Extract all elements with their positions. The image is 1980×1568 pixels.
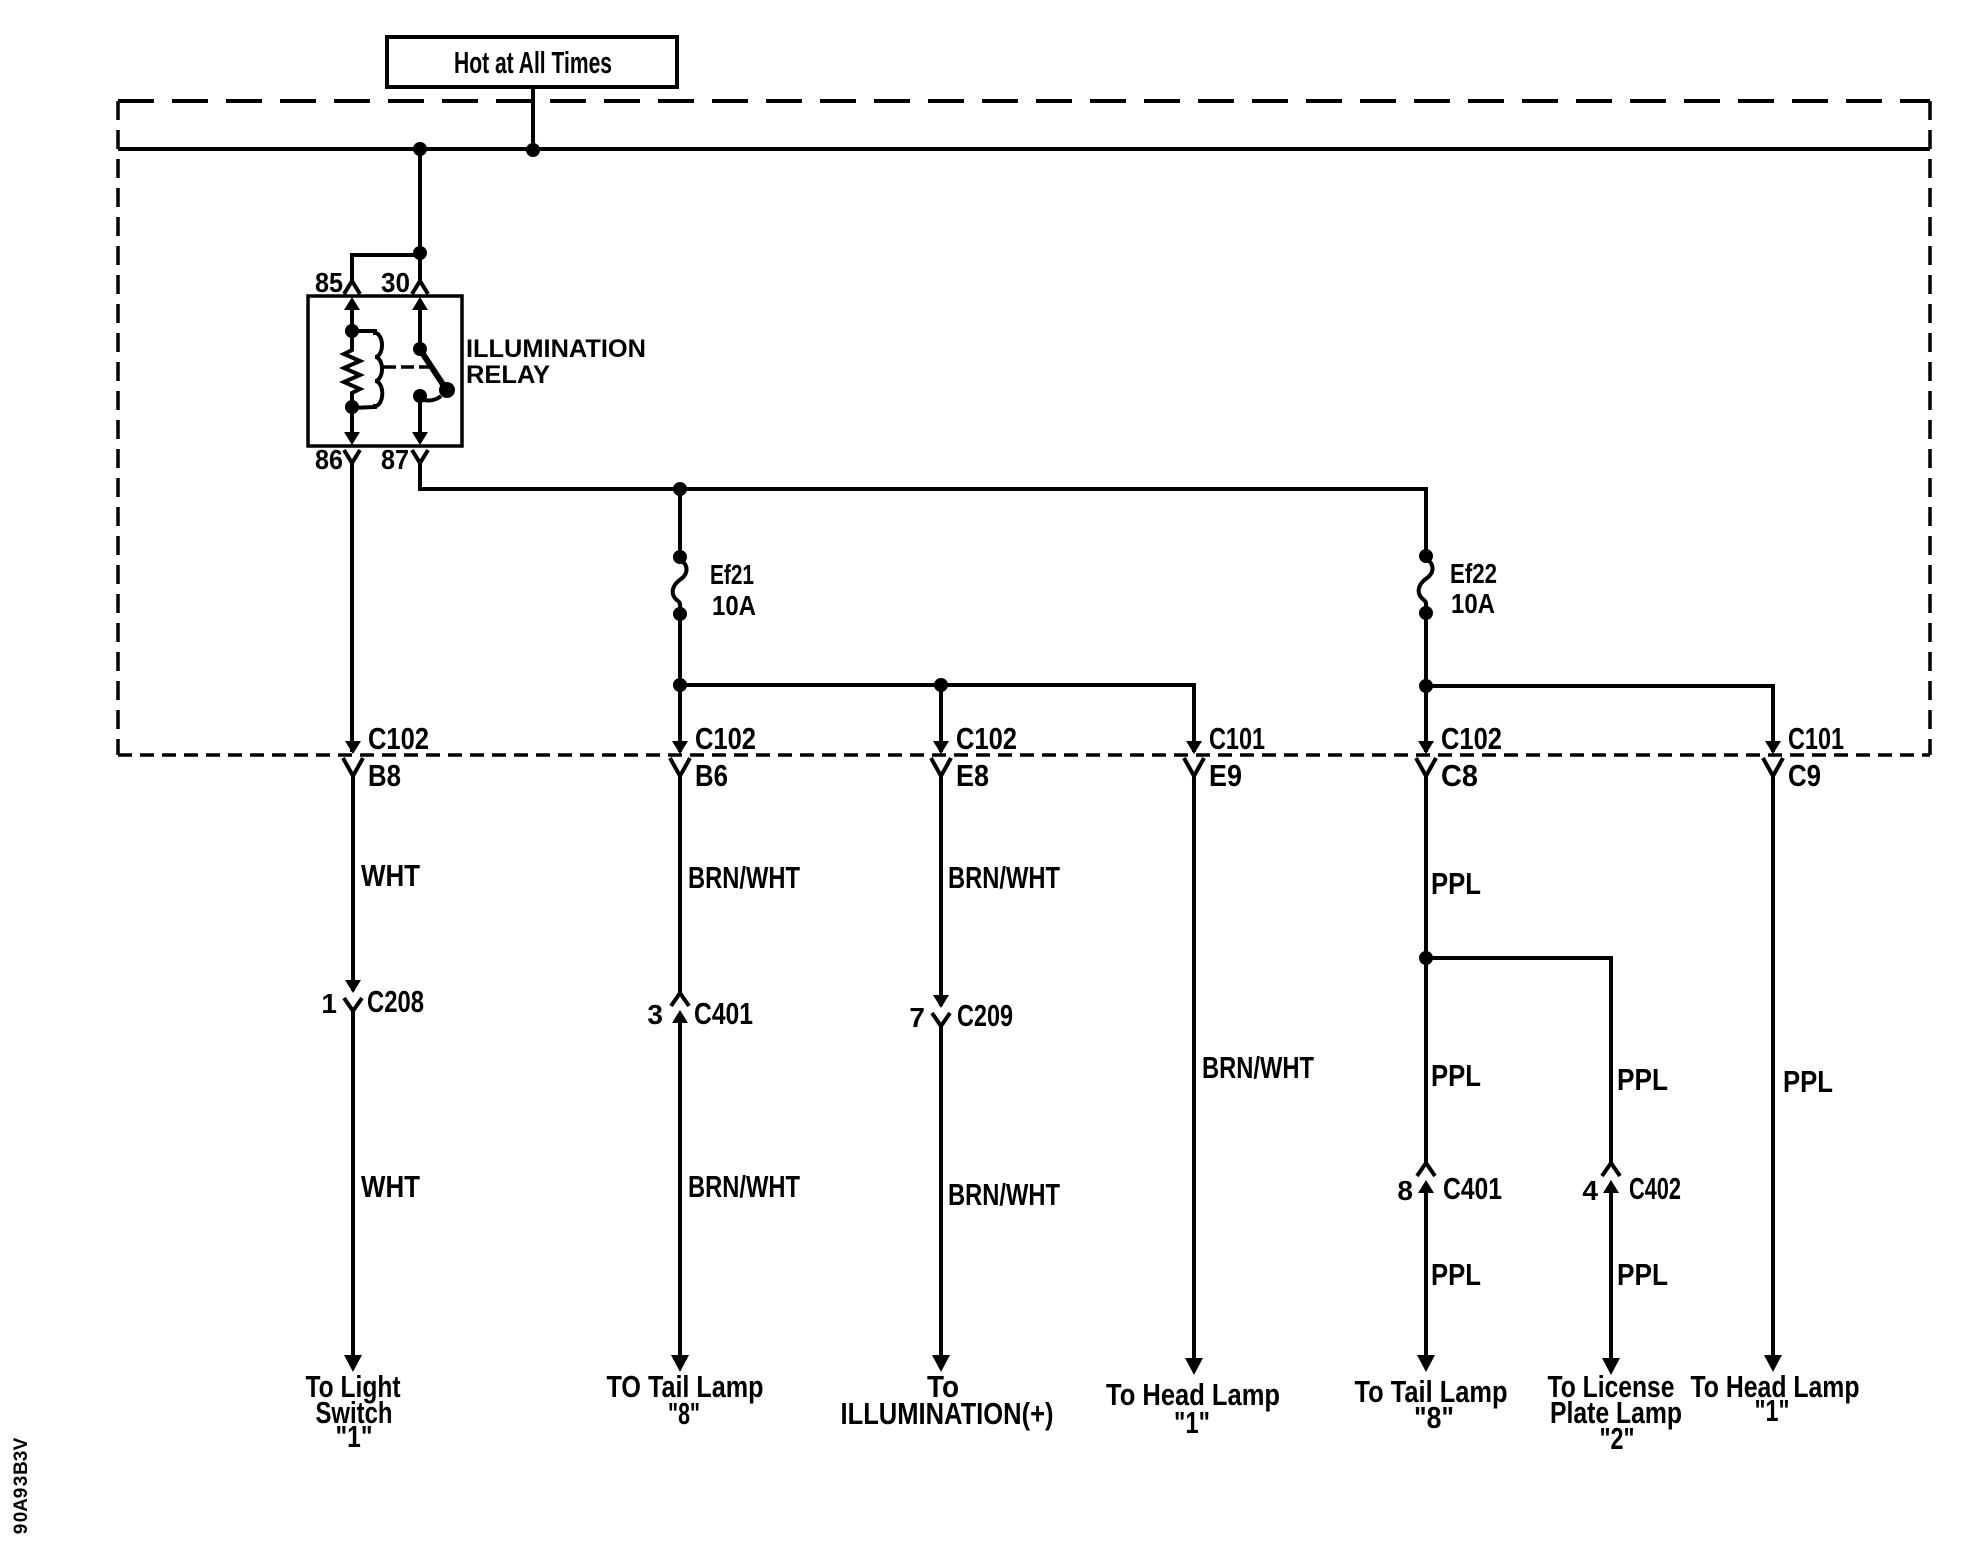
pin 87 chevron: [412, 450, 428, 463]
svg-text:"2": "2": [1600, 1421, 1635, 1456]
svg-text:C401: C401: [694, 996, 753, 1031]
svg-text:Ef21: Ef21: [710, 559, 754, 590]
svg-text:C9: C9: [1788, 758, 1821, 793]
svg-text:BRN/WHT: BRN/WHT: [948, 1177, 1060, 1212]
wire PPL: junction down to C401 pin 8: [1424, 958, 1428, 1163]
svg-text:BRN/WHT: BRN/WHT: [1202, 1050, 1314, 1085]
wire PPL: C8 to junction: [1424, 774, 1428, 958]
dashed boundary box right edge: [1928, 101, 1932, 755]
svg-text:PPL: PPL: [1431, 1257, 1481, 1292]
wire: Ef22 to branch: [1424, 613, 1428, 686]
wire: E8 column to boundary: [939, 685, 943, 752]
coil top junction: [345, 324, 359, 338]
pin 30 inner arrowhead: [412, 297, 428, 310]
connector C102 / terminal B8 at boundary: [343, 721, 429, 793]
svg-text:C101: C101: [1209, 721, 1265, 756]
arrow to license plate lamp: [1602, 1358, 1620, 1375]
pin 86 chevron: [344, 450, 360, 463]
relay coil resistor zigzag: [344, 331, 360, 407]
destination label To Head Lamp "1": [1106, 1377, 1280, 1440]
svg-text:86: 86: [315, 444, 343, 475]
junction at B6 column: [673, 678, 687, 692]
wire: B6 column to boundary: [678, 685, 682, 752]
destination label To Light Switch "1": [306, 1369, 401, 1454]
svg-text:4: 4: [1582, 1175, 1598, 1206]
junction at bus below power box: [526, 143, 540, 157]
svg-text:B: B: [11, 1461, 32, 1475]
wire: coil to pin 86: [350, 407, 354, 434]
svg-text:PPL: PPL: [1617, 1062, 1668, 1097]
svg-text:V: V: [11, 1437, 32, 1450]
wire BRN/WHT: C209 to illumination: [939, 1026, 943, 1356]
arrow to head lamp: [1185, 1358, 1203, 1375]
power source box "Hot at All Times": [387, 37, 677, 87]
in-line connector C401 pin 8: [1397, 1163, 1502, 1206]
in-line connector C208 pin 1: [321, 980, 424, 1019]
switch hook from fixed contact: [424, 396, 441, 401]
destination label To Head Lamp "1": [1691, 1369, 1860, 1428]
arrow to light switch: [344, 1355, 362, 1372]
svg-text:PPL: PPL: [1431, 1058, 1481, 1093]
svg-text:30: 30: [381, 267, 410, 298]
arrow to head lamp: [1764, 1355, 1782, 1372]
svg-text:ILLUMINATION: ILLUMINATION: [466, 335, 646, 363]
connector C101 / terminal C9 at boundary: [1763, 721, 1844, 793]
junction splitting to pin 85: [413, 246, 427, 260]
wire: bus down to relay pin 30: [418, 149, 422, 280]
dashed boundary box left edge: [116, 101, 120, 755]
svg-text:ILLUMINATION(+): ILLUMINATION(+): [841, 1396, 1054, 1431]
wire: branch line Ef22 to columns C8/C9: [1426, 686, 1773, 752]
wire: pin 86 down to C102 boundary: [350, 463, 354, 752]
connector C102 / terminal E8 at boundary: [931, 721, 1017, 793]
wire: C8 column to boundary: [1424, 686, 1428, 752]
pin 85 chevron: [344, 281, 360, 294]
wire: hot bus: [118, 147, 1930, 151]
wire: drop from Hot at All Times box to bus: [531, 87, 535, 149]
svg-text:C102: C102: [956, 721, 1017, 756]
svg-text:7: 7: [909, 1002, 925, 1033]
arrow to tail lamp: [1417, 1355, 1435, 1372]
svg-text:C401: C401: [1443, 1171, 1502, 1206]
svg-text:3: 3: [11, 1451, 32, 1462]
svg-text:BRN/WHT: BRN/WHT: [688, 860, 800, 895]
coil bottom junction: [345, 400, 359, 414]
svg-text:WHT: WHT: [361, 1169, 420, 1204]
dashed boundary box bottom edge (connector line C102/C101): [118, 753, 1930, 757]
switch common contact: [413, 342, 427, 356]
destination label TO Tail Lamp "8": [607, 1369, 764, 1431]
svg-text:C101: C101: [1788, 721, 1844, 756]
svg-text:C208: C208: [367, 984, 424, 1019]
pin 86 inner arrowhead: [344, 432, 360, 445]
svg-text:WHT: WHT: [361, 858, 420, 893]
wire: Ef21 to branch: [678, 614, 682, 685]
svg-text:C402: C402: [1629, 1171, 1681, 1206]
fuse Ef22 10A: [1419, 549, 1433, 620]
relay coil winding (parallel arcs): [352, 331, 382, 408]
pin 87 inner arrowhead: [412, 432, 428, 445]
svg-text:BRN/WHT: BRN/WHT: [688, 1169, 800, 1204]
svg-text:"1": "1": [1174, 1405, 1210, 1440]
svg-text:B8: B8: [368, 758, 401, 793]
wire BRN/WHT: E9 to head lamp: [1192, 774, 1196, 1358]
svg-text:8: 8: [1397, 1175, 1413, 1206]
in-line connector C209 pin 7: [909, 995, 1013, 1033]
pin 85 inner arrowhead: [344, 297, 360, 310]
wire: pin 30 to switch common: [418, 303, 422, 349]
svg-text:A: A: [11, 1498, 32, 1512]
connector C101 / terminal E9 at boundary: [1184, 721, 1265, 793]
svg-text:RELAY: RELAY: [466, 361, 550, 389]
svg-text:85: 85: [315, 267, 343, 298]
wire BRN/WHT: B6 to C401: [678, 774, 682, 993]
junction at C8 column: [1419, 679, 1433, 693]
pin 30 chevron: [412, 281, 428, 294]
svg-text:0: 0: [11, 1512, 32, 1523]
svg-text:C209: C209: [957, 998, 1013, 1033]
wire WHT: C208 to light switch: [351, 1011, 355, 1356]
switch lever tip blob: [439, 382, 455, 398]
wire: switch to pin 87: [418, 396, 422, 434]
svg-text:C8: C8: [1441, 758, 1478, 793]
arrow to illumination: [932, 1355, 950, 1372]
junction at E8 column: [934, 678, 948, 692]
svg-text:"8": "8": [1414, 1400, 1454, 1435]
destination label To Tail Lamp "8": [1355, 1374, 1508, 1435]
svg-text:9: 9: [11, 1488, 32, 1499]
junction at Ef21 tap: [673, 482, 687, 496]
svg-text:9: 9: [11, 1524, 32, 1535]
svg-text:PPL: PPL: [1617, 1257, 1668, 1292]
svg-text:10A: 10A: [712, 590, 756, 621]
drawing id V3B39A09 (rotated): [11, 1437, 32, 1534]
relay box ILLUMINATION RELAY: [308, 296, 462, 446]
svg-text:PPL: PPL: [1431, 866, 1481, 901]
switch movable lever: [421, 351, 446, 389]
svg-text:B6: B6: [695, 758, 728, 793]
svg-text:"8": "8": [668, 1396, 700, 1431]
fuse Ef21 10A: [673, 550, 687, 621]
svg-text:C102: C102: [368, 721, 429, 756]
wire BRN/WHT: C401 to tail lamp: [678, 1016, 682, 1356]
wire PPL: C402 to license plate lamp: [1609, 1186, 1613, 1358]
in-line connector C402 pin 4: [1582, 1163, 1681, 1206]
junction at C8/C402 split: [1419, 951, 1433, 965]
wire: branch line Ef21 to columns B6/E8/E9: [680, 685, 1194, 752]
svg-text:Ef22: Ef22: [1450, 558, 1497, 589]
svg-text:"1": "1": [1755, 1393, 1790, 1428]
dashed boundary box top edge: [118, 99, 1930, 103]
svg-text:1: 1: [321, 988, 337, 1019]
connector C102 / terminal C8 at boundary: [1416, 721, 1502, 793]
svg-text:BRN/WHT: BRN/WHT: [948, 860, 1060, 895]
wire PPL: C401 to tail lamp: [1424, 1186, 1428, 1356]
svg-text:C102: C102: [1441, 721, 1502, 756]
switch fixed contact: [413, 389, 427, 403]
wire WHT: B8 to C208: [351, 774, 355, 991]
wire BRN/WHT: E8 to C209: [939, 774, 943, 1006]
svg-text:E8: E8: [956, 758, 989, 793]
svg-text:3: 3: [11, 1476, 32, 1487]
svg-text:3: 3: [647, 999, 663, 1030]
mechanical linkage dashes coil to lever: [383, 365, 430, 369]
svg-text:"1": "1": [336, 1419, 373, 1454]
svg-text:10A: 10A: [1451, 588, 1495, 619]
destination label To ILLUMINATION(+): [841, 1369, 1054, 1431]
wire: pin 85 to coil: [350, 303, 354, 331]
wire PPL: C9 to head lamp: [1771, 774, 1775, 1356]
svg-text:Hot at All Times: Hot at All Times: [454, 45, 612, 80]
svg-text:C102: C102: [695, 721, 756, 756]
wire: branch left to pin 85: [352, 255, 420, 280]
svg-text:87: 87: [381, 444, 409, 475]
junction at bus feeding relay: [413, 142, 427, 156]
wire: tap down to fuse Ef21: [678, 489, 682, 557]
in-line connector C401 pin 3: [647, 993, 753, 1031]
wire: branch to license plate lamp column: [1426, 958, 1611, 1163]
wire: pin 87 down and across to fuses: [420, 463, 1426, 557]
destination label To License Plate Lamp "2": [1548, 1369, 1683, 1456]
arrow to tail lamp: [671, 1355, 689, 1372]
svg-text:PPL: PPL: [1783, 1064, 1833, 1099]
connector C102 / terminal B6 at boundary: [670, 721, 756, 793]
svg-text:E9: E9: [1209, 758, 1242, 793]
